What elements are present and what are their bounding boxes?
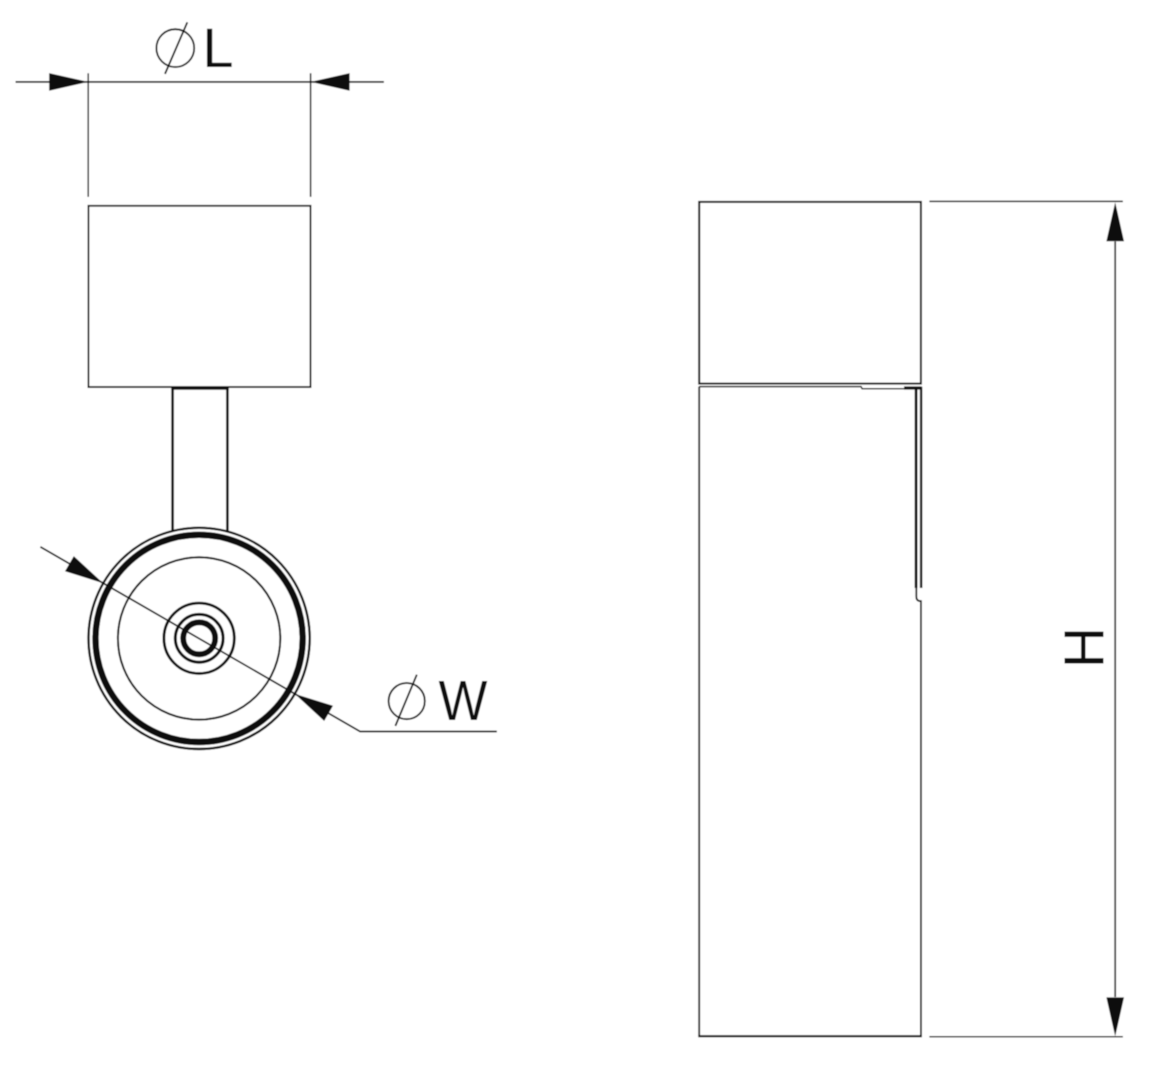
arrowhead lower-right of W dimension (295, 694, 333, 721)
side view body seam top corner (904, 386, 922, 389)
extension line bottom of H dimension (929, 1036, 1122, 1038)
arrowhead top of H dimension (1106, 202, 1124, 241)
side view body top edge with step (699, 387, 917, 389)
head trim ring (thick) (96, 535, 303, 742)
dimension line H (vertical) (1114, 242, 1116, 998)
head outer circle (89, 528, 310, 749)
stem left line (171, 388, 174, 532)
lens outer circle (164, 603, 234, 673)
lens middle circle (175, 614, 223, 662)
head inner bezel circle (118, 557, 280, 719)
diameter symbol of L label (156, 22, 194, 74)
side view body right edge notch and lower edge (916, 588, 921, 1037)
extension line right of L dimension (310, 73, 312, 197)
extension line left of L dimension (87, 73, 89, 197)
svg-text:W: W (439, 669, 488, 733)
side view body right seam outer line (920, 387, 922, 588)
diameter symbol of W label (389, 675, 425, 726)
lens thick inner ring (183, 622, 215, 654)
side view body bottom edge (698, 1035, 922, 1037)
stem right line (226, 388, 229, 532)
arrowhead upper-left of W dimension (65, 556, 103, 583)
arrowhead bottom of H dimension (1106, 997, 1124, 1036)
svg-text:H: H (1053, 627, 1117, 668)
diagonal dimension line W (40, 547, 496, 732)
stem top edge (171, 387, 228, 390)
top view mounting box (88, 206, 310, 387)
svg-text:L: L (202, 16, 233, 79)
side view driver housing box (699, 202, 921, 384)
arrowhead right of L dimension (311, 73, 350, 91)
arrowhead left of L dimension (49, 73, 88, 91)
side view body left edge (698, 387, 700, 1037)
extension line top of H dimension (929, 200, 1122, 202)
dimension line L (horizontal) (16, 81, 384, 83)
side view body right seam inner line (915, 388, 918, 589)
